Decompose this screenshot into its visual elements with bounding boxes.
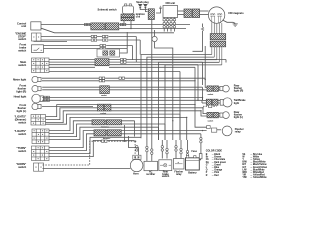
wire to rear flasher R [205,78,207,87]
main switch [32,58,50,73]
wire harness riser [46,111,98,123]
inline connector [200,137,202,139]
inline connector [99,80,101,82]
wire [202,87,204,100]
inline connector [166,148,168,150]
connector on dashed stub [209,105,212,108]
inline connector on horn wire [102,140,104,142]
wire engine stop 2 [41,39,102,41]
wire [109,66,195,68]
inline connector [180,148,182,150]
junction [130,28,131,29]
connector R1a [207,86,212,91]
svg-text:... Pink: ... Pink [212,172,220,174]
wire magneto 1 left [141,55,212,139]
wire to flasher unit [195,105,207,128]
connector block A1 [91,23,105,30]
wire magneto to ground [223,20,236,23]
wire [218,99,222,101]
control unit [31,22,41,30]
connector block A2 [105,23,119,30]
svg-text:switch: switch [18,132,26,136]
ignition coil [148,9,154,20]
wire dashed stub [203,105,217,107]
wire magneto 3 left [152,60,217,140]
wire [106,48,127,50]
wire cdi pin 1 [163,18,165,32]
svg-text:rectifier: rectifier [146,173,155,176]
battery [186,158,200,170]
inline connector [120,23,122,25]
headlight connector a [44,96,46,98]
wire [218,86,222,88]
inline connector [186,150,188,152]
wire [200,14,209,16]
wire [111,104,195,106]
wire control unit out 2 [41,28,174,33]
svg-text:... Blue/White: ... Blue/White [250,168,265,171]
wire strip D drop [124,125,126,141]
cdi pin connector 3 [170,19,172,21]
junction [151,59,152,60]
wire main switch 3 [49,64,95,66]
colour code legend [206,149,268,179]
wire [109,64,198,66]
horn [130,159,143,172]
wire meter light a [42,77,205,79]
junction [124,141,125,142]
svg-text:switch: switch [18,48,26,52]
wire front flasher R out b [42,89,100,91]
svg-text:light (L): light (L) [17,109,27,113]
wire [202,24,204,28]
wire [217,129,221,131]
wire to brake switch a [161,140,163,159]
wire to rectifier b [151,140,153,161]
svg-text:... Green: ... Green [212,163,222,166]
svg-text:light (R): light (R) [16,89,26,93]
wire [155,42,173,64]
wire head light 2 [42,100,202,103]
wire [179,72,181,141]
horn connectors [136,146,138,148]
wire B to magneto [200,10,209,12]
svg-text:light: light [234,102,239,105]
svg-text:Br: Br [206,156,209,159]
junction [202,107,203,108]
wire to battery + [187,140,189,156]
turn switch [32,146,50,161]
cdi pin connector 1 [163,19,165,21]
magneto connector row 1 [210,34,226,40]
wire [109,86,202,88]
wire meter light b [42,80,195,82]
solenoid connector row 2 [121,18,134,21]
wire solenoid to connector b [130,21,132,29]
inline connector [175,146,177,148]
wire coil to cdi ground stub [156,8,161,13]
wire solenoid to connector a [123,21,125,25]
engine stop switch [32,33,42,41]
wire [135,37,137,63]
solenoid connector row 1 [121,14,134,17]
wire to horn b [128,148,138,156]
junction [172,120,173,121]
wire fuse top [200,134,202,154]
connector strip E1 [94,130,106,136]
inline connector [161,146,163,148]
headlight connector b [44,99,46,101]
wire magneto 2 left [147,57,214,140]
spark plug 1 [138,3,142,5]
svg-text:Fuse: Fuse [192,151,198,153]
wire [109,39,141,41]
connector R2b [213,99,218,105]
magneto lead wires [211,23,213,34]
wire [164,124,166,140]
wire main switch 4 [49,66,95,68]
svg-text:switch: switch [18,120,26,124]
svg-text:... Chocolate: ... Chocolate [212,158,226,161]
wire [179,114,181,140]
svg-text:relay: relay [176,173,182,176]
wire [194,67,196,104]
wire box up [120,32,128,53]
ground near cdi [159,6,162,8]
inline connector [84,23,86,25]
svg-text:socket: socket [208,93,214,96]
svg-text:Horn: Horn [133,172,139,175]
wire [109,36,137,38]
inline connector [102,39,104,41]
svg-text:CDI unit: CDI unit [166,2,176,5]
wire to flasher relay b [180,140,182,159]
wire [204,89,207,91]
CDI magneto [208,7,224,23]
wire [109,59,226,61]
wire [218,102,222,104]
inline connector [100,47,102,49]
svg-text:... Yellow/White: ... Yellow/White [250,176,267,179]
wire [119,24,190,26]
wire cdi pin 2 [167,18,169,32]
lights switch [32,129,49,144]
junction [202,97,203,98]
flasher relay [174,159,185,170]
connector R2a [206,99,211,105]
wire harness riser [49,117,187,130]
wire [218,89,222,91]
front flasher light R [32,86,38,92]
wire harness riser [46,114,181,124]
svg-text:... White: ... White [250,156,259,159]
rear flasher light R [223,85,230,92]
relay/connector box [97,49,120,57]
svg-text:socket: socket [208,120,214,123]
wire to flasher relay a [175,140,177,159]
front flasher light L [32,103,38,109]
wire [34,40,68,42]
connector block C1 [98,104,104,111]
svg-text:socket: socket [101,94,107,97]
wire cdi pin 3 [170,18,172,32]
wire horn dashed [43,141,136,165]
wire main switch 2 [49,61,95,63]
svg-text:... Orange: ... Orange [212,169,223,172]
wire to horn [134,141,136,155]
connector R1b [213,86,218,91]
wire [197,65,199,101]
svg-text:Spark plug: Spark plug [136,1,149,4]
inline connector [146,146,148,148]
tail/brake light [223,98,232,107]
wire [131,46,133,61]
junction [194,104,195,105]
svg-text:COLOR CODE: COLOR CODE [206,149,223,152]
wire front flasher R out a [42,86,100,88]
junction [205,79,206,80]
CDI unit [163,6,178,18]
rear flasher light L [223,112,230,119]
svg-text:Head light: Head light [14,95,27,99]
wire engine stop 1 [41,36,102,38]
svg-text:... Green/Yellow: ... Green/Yellow [250,166,267,169]
inline connector [121,61,123,63]
main switch connector [95,59,109,66]
meter light [32,76,38,82]
wire [202,62,204,85]
inline connector [99,77,101,79]
flasher unit [222,126,232,136]
junction [123,24,124,25]
cdi pin connector 4 [173,19,175,21]
wire harness riser [46,105,98,117]
cdi pin connector 2 [166,19,168,21]
svg-text:relay: relay [235,130,241,133]
svg-text:light (R): light (R) [234,90,244,93]
inline connector [91,35,93,37]
wire [111,110,201,112]
connector block B1 [184,9,191,18]
head light [32,94,41,103]
wire [109,61,203,63]
wire main switch 5 [49,71,180,73]
wire harness riser [49,134,201,151]
wire strip E drop [127,136,129,148]
junction [200,110,201,111]
connector R3b [213,112,218,117]
svg-text:... Dark green: ... Dark green [212,161,227,164]
wire front flasher L out [42,106,93,108]
pickup coil resistor [201,27,203,31]
wire harness riser [49,131,207,148]
wire main switch 1 [49,59,95,61]
wire cdi pin 4 [173,18,175,32]
svg-text:... Black/White: ... Black/White [250,161,266,164]
connector headlamp harness [100,86,110,94]
junction [135,141,136,142]
dimmer switch [31,115,46,126]
horn connector block [133,155,141,159]
junction [186,117,187,118]
magneto connector row 2 [210,41,226,47]
inline connector [119,77,121,79]
wire [203,99,207,101]
junction [197,100,198,101]
svg-text:switch: switch [162,175,170,178]
wire [178,14,185,16]
rear brake switch [159,160,172,171]
svg-text:switch: switch [18,165,26,169]
svg-text:... Brown: ... Brown [212,156,222,159]
wire [154,30,156,36]
wire magneto 4 left [159,62,220,140]
wire fuse to battery [199,159,201,160]
wire [218,113,222,115]
wire to rectifier a [146,140,148,161]
wire stub [225,60,227,63]
wire control unit out [41,24,91,26]
AC rectifier [144,161,158,170]
wire [172,65,174,140]
magneto lead wires lower [211,47,213,55]
connector R3a [207,112,212,117]
svg-text:switch: switch [18,63,26,67]
junction [202,130,203,131]
svg-text:harness: harness [103,138,110,140]
svg-text:unit: unit [21,24,26,28]
connector strip E2 [107,130,121,136]
svg-text:Battery: Battery [188,171,197,174]
wire plug1 to coil [140,8,147,10]
inline connector [102,35,104,37]
front brake switch [32,45,44,53]
wire harness riser [49,121,135,134]
wire [202,102,206,104]
connector block B2 [192,9,199,18]
ground [233,24,238,26]
wire harness riser [49,127,159,139]
wire plug2 to coil [145,8,147,12]
svg-text:light (L): light (L) [234,116,243,119]
wire harness riser [49,124,165,137]
wire [186,117,188,140]
wire harness riser [49,137,141,153]
wire [109,89,204,91]
junction [194,80,195,81]
svg-text:CDI magneto: CDI magneto [228,12,244,15]
wire [106,45,132,47]
inline connector [121,58,123,60]
wire horn 2 [43,168,131,170]
wire [134,121,136,137]
horn switch [34,163,44,171]
wire [111,107,203,109]
wire pickup down [193,31,203,51]
inline connector [91,39,93,41]
connector block C2 [105,104,111,111]
wire harness riser [49,140,135,156]
wire [158,127,160,140]
wire [119,28,186,30]
bullet connector [152,36,157,41]
wire coil down [151,20,153,60]
svg-text:coil: coil [136,16,141,19]
svg-text:harness: harness [102,126,109,128]
wire magneto 5 left [165,65,222,140]
inline connector [100,44,102,46]
fuse [199,154,202,159]
flasher unit connectors [207,126,211,129]
wire cdi to B [178,10,185,12]
svg-text:... Red: ... Red [212,175,219,177]
svg-text:Solenoid switch: Solenoid switch [98,8,118,11]
wire to brake switch b [166,140,168,159]
connector strip D2 [106,120,121,125]
svg-text:Meter light: Meter light [13,77,26,81]
wire to rear flasher L [203,108,207,114]
wire harness riser [46,108,98,120]
wire bus [204,46,206,80]
svg-text:switch: switch [18,149,26,153]
wire front brake switch 2 [44,48,101,50]
connector strip D1 [92,120,105,125]
wire front brake switch 1 [44,45,101,47]
solenoid switch [123,6,134,14]
wire [139,40,141,55]
spark plug 2 [143,3,147,5]
svg-text:switch: switch [18,37,26,41]
wire [201,111,207,116]
inline connector [151,149,153,151]
wire [218,115,222,117]
wire head light 1 [42,97,202,100]
